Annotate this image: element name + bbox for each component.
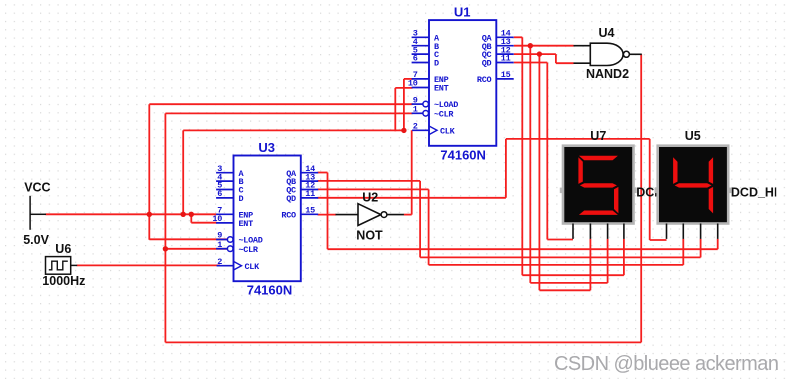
svg-text:11: 11 <box>501 54 511 64</box>
wire U1 QC vertical <box>538 54 540 290</box>
wire U3 QD vertical down <box>649 139 651 240</box>
pin 13 (QB) of U1 <box>496 45 513 47</box>
wire VCC upper horizontal <box>183 129 404 131</box>
NAND gate U4 <box>574 43 642 65</box>
wire QC jog to NAND <box>556 62 574 64</box>
pin 12 (QC) of U1 <box>496 53 513 55</box>
74160N counter U1 <box>408 20 514 146</box>
wire U3 QC bottom row <box>429 264 684 266</box>
pin 10 (ENT) of U3 <box>216 222 233 224</box>
wire U3 QD <box>318 197 506 199</box>
wire U3 RCO to NOT <box>318 214 337 216</box>
pin 3 (A) of U1 <box>412 36 429 38</box>
pin 4 (B) of U1 <box>412 45 429 47</box>
svg-text:5.0V: 5.0V <box>23 233 49 247</box>
svg-text:1: 1 <box>413 105 418 115</box>
wire U7 pin2 drop <box>589 239 591 290</box>
pin 4 (B) of U3 <box>216 180 233 182</box>
pin 5 (C) of U1 <box>412 53 429 55</box>
svg-text:D: D <box>239 194 244 204</box>
svg-text:QD: QD <box>482 59 492 69</box>
wire U7 pin3 drop <box>607 239 609 283</box>
pin 7 (ENP) of U3 <box>216 213 233 215</box>
svg-text:U2: U2 <box>362 191 378 205</box>
pin 12 (QC) of U3 <box>301 189 318 191</box>
wire U1 QA vertical <box>521 37 523 275</box>
svg-text:CSDN @blueee ackerman: CSDN @blueee ackerman <box>554 353 778 375</box>
pin 2 (CLK) of U3 <box>217 265 234 267</box>
wire U5 pin4 drop <box>717 239 719 249</box>
svg-text:CLK: CLK <box>245 262 261 272</box>
74160N counter U3 <box>212 156 318 282</box>
svg-text:RCO: RCO <box>281 210 296 220</box>
pin 1 (~CLR) of U3 <box>216 248 227 250</box>
junction ENP net <box>401 128 406 133</box>
svg-text:10: 10 <box>408 79 418 89</box>
pin 6 (D) of U3 <box>216 197 233 199</box>
wire NOT output vertical to U1 CLK <box>411 130 413 214</box>
svg-text:U3: U3 <box>258 140 275 155</box>
svg-text:6: 6 <box>413 54 418 64</box>
svg-text:1000Hz: 1000Hz <box>42 274 85 288</box>
wire U3 QD vertical up <box>505 139 507 198</box>
wire U3 QB vertical <box>419 181 421 258</box>
svg-text:15: 15 <box>305 206 315 216</box>
wire U1 QB vertical <box>529 46 531 283</box>
svg-text:ENT: ENT <box>239 219 254 229</box>
wire U5 pin3 drop <box>700 239 702 258</box>
wire U3 QB <box>318 180 421 182</box>
wire U1 QC <box>514 53 556 55</box>
svg-text:D: D <box>434 59 439 69</box>
svg-text:~CLR: ~CLR <box>434 109 454 119</box>
pin 9 (~LOAD) of U3 <box>216 239 227 241</box>
svg-text:6: 6 <box>217 189 222 199</box>
wire U3 QD top row <box>506 138 650 140</box>
wire U3 QA bottom row <box>328 248 718 250</box>
pin 1 (~CLR) of U1 <box>412 112 423 114</box>
junction QC <box>537 51 542 56</box>
pin 2 (CLK) of U1 <box>412 129 429 131</box>
wire U3 QA vertical <box>327 173 329 250</box>
svg-text:NOT: NOT <box>356 229 383 243</box>
wire to U1 ENP vertical <box>403 79 405 130</box>
wire U5 pin2 drop <box>682 239 684 265</box>
seven-segment display U7 (digit 5) <box>560 146 637 239</box>
wire U1 ENP hook <box>404 78 413 80</box>
wire U7 pin4 drop <box>623 239 625 275</box>
wire U1 QD vertical <box>546 63 548 240</box>
wire U1 QB bottom row <box>530 282 607 284</box>
svg-text:CLK: CLK <box>440 126 456 136</box>
pin 11 (QD) of U1 <box>496 62 513 64</box>
wire U3 ~LOAD row <box>149 238 227 240</box>
wire NAND output vertical <box>640 54 642 342</box>
seven-segment display U5 (digit 4) <box>655 146 732 239</box>
pin 15 (RCO) of U1 <box>496 78 513 80</box>
svg-text:NAND2: NAND2 <box>586 67 629 81</box>
svg-text:74160N: 74160N <box>247 283 293 298</box>
wire U3 QA <box>318 172 328 174</box>
wire VCC rail horizontal <box>46 213 217 215</box>
pin 5 (C) of U3 <box>216 189 233 191</box>
svg-text:U5: U5 <box>685 129 701 143</box>
pin 14 (QA) of U3 <box>301 172 318 174</box>
VCC power symbol <box>30 196 46 230</box>
svg-text:74160N: 74160N <box>440 147 486 162</box>
wire U1 ~LOAD row <box>149 103 412 105</box>
svg-text:~CLR: ~CLR <box>239 245 259 255</box>
wire U3 QB bottom row <box>420 256 700 258</box>
wire QC jog vertical <box>555 54 557 63</box>
junction QB <box>528 43 533 48</box>
clock source U6 <box>46 257 78 275</box>
wire NOT output <box>404 214 412 216</box>
pin 11 (QD) of U3 <box>301 197 318 199</box>
wire ~CLR bottom row <box>165 341 641 343</box>
NOT gate U2 <box>336 204 404 226</box>
label DCD_HEX (U5 value, clipped) <box>731 186 791 200</box>
wire U3 ~CLR row <box>165 248 227 250</box>
wire U7 pin1 hook <box>547 239 573 241</box>
wire U1 ENT vertical <box>394 88 396 131</box>
wire U1 QA <box>514 36 523 38</box>
svg-text:1: 1 <box>217 240 222 250</box>
wire U1 QA bottom row <box>522 274 624 276</box>
wire U3 ENT hook vertical <box>190 214 192 222</box>
junction ~CLR net <box>163 246 168 251</box>
svg-text:VCC: VCC <box>24 181 50 195</box>
wire U1 ~CLR row <box>165 112 412 114</box>
wire U3 QC vertical <box>428 189 430 265</box>
svg-text:RCO: RCO <box>477 75 492 85</box>
svg-text:QD: QD <box>286 194 296 204</box>
svg-text:15: 15 <box>501 70 511 80</box>
wire U1 QC bottom row <box>539 289 590 291</box>
svg-text:U7: U7 <box>590 129 606 143</box>
pin 13 (QB) of U3 <box>301 180 318 182</box>
svg-text:U6: U6 <box>55 242 71 256</box>
pin 3 (A) of U3 <box>216 172 233 174</box>
wire U1 QB to NAND <box>514 45 574 47</box>
svg-text:ENT: ENT <box>434 84 449 94</box>
pin 7 (ENP) of U1 <box>412 78 429 80</box>
wire U1 ENT row <box>395 87 412 89</box>
pin 9 (~LOAD) of U1 <box>412 103 423 105</box>
svg-text:10: 10 <box>212 214 222 224</box>
wire clock to U3 CLK <box>77 264 220 266</box>
wire VCC branch vertical <box>182 130 184 214</box>
pin 10 (ENT) of U1 <box>412 87 429 89</box>
junction VCC-branch <box>181 212 186 217</box>
wire VCC vertical to ~LOAD pins <box>148 104 150 240</box>
pin 14 (QA) of U1 <box>496 36 513 38</box>
wire ~CLR long vertical <box>164 113 166 342</box>
junction VCC-LOAD <box>147 212 152 217</box>
svg-text:2: 2 <box>217 257 222 267</box>
svg-text:2: 2 <box>413 122 418 132</box>
wire U1 QD <box>514 62 548 64</box>
svg-text:U1: U1 <box>454 5 471 20</box>
svg-text:U4: U4 <box>599 26 615 40</box>
wire U3 ENT hook horizontal <box>191 222 217 224</box>
svg-text:11: 11 <box>305 189 315 199</box>
pin 15 (RCO) of U3 <box>301 213 318 215</box>
wire U5 pin1 hook <box>650 239 667 241</box>
pin 6 (D) of U1 <box>412 62 429 64</box>
wire U3 QC <box>318 188 429 190</box>
junction VCC-ENT <box>189 212 194 217</box>
